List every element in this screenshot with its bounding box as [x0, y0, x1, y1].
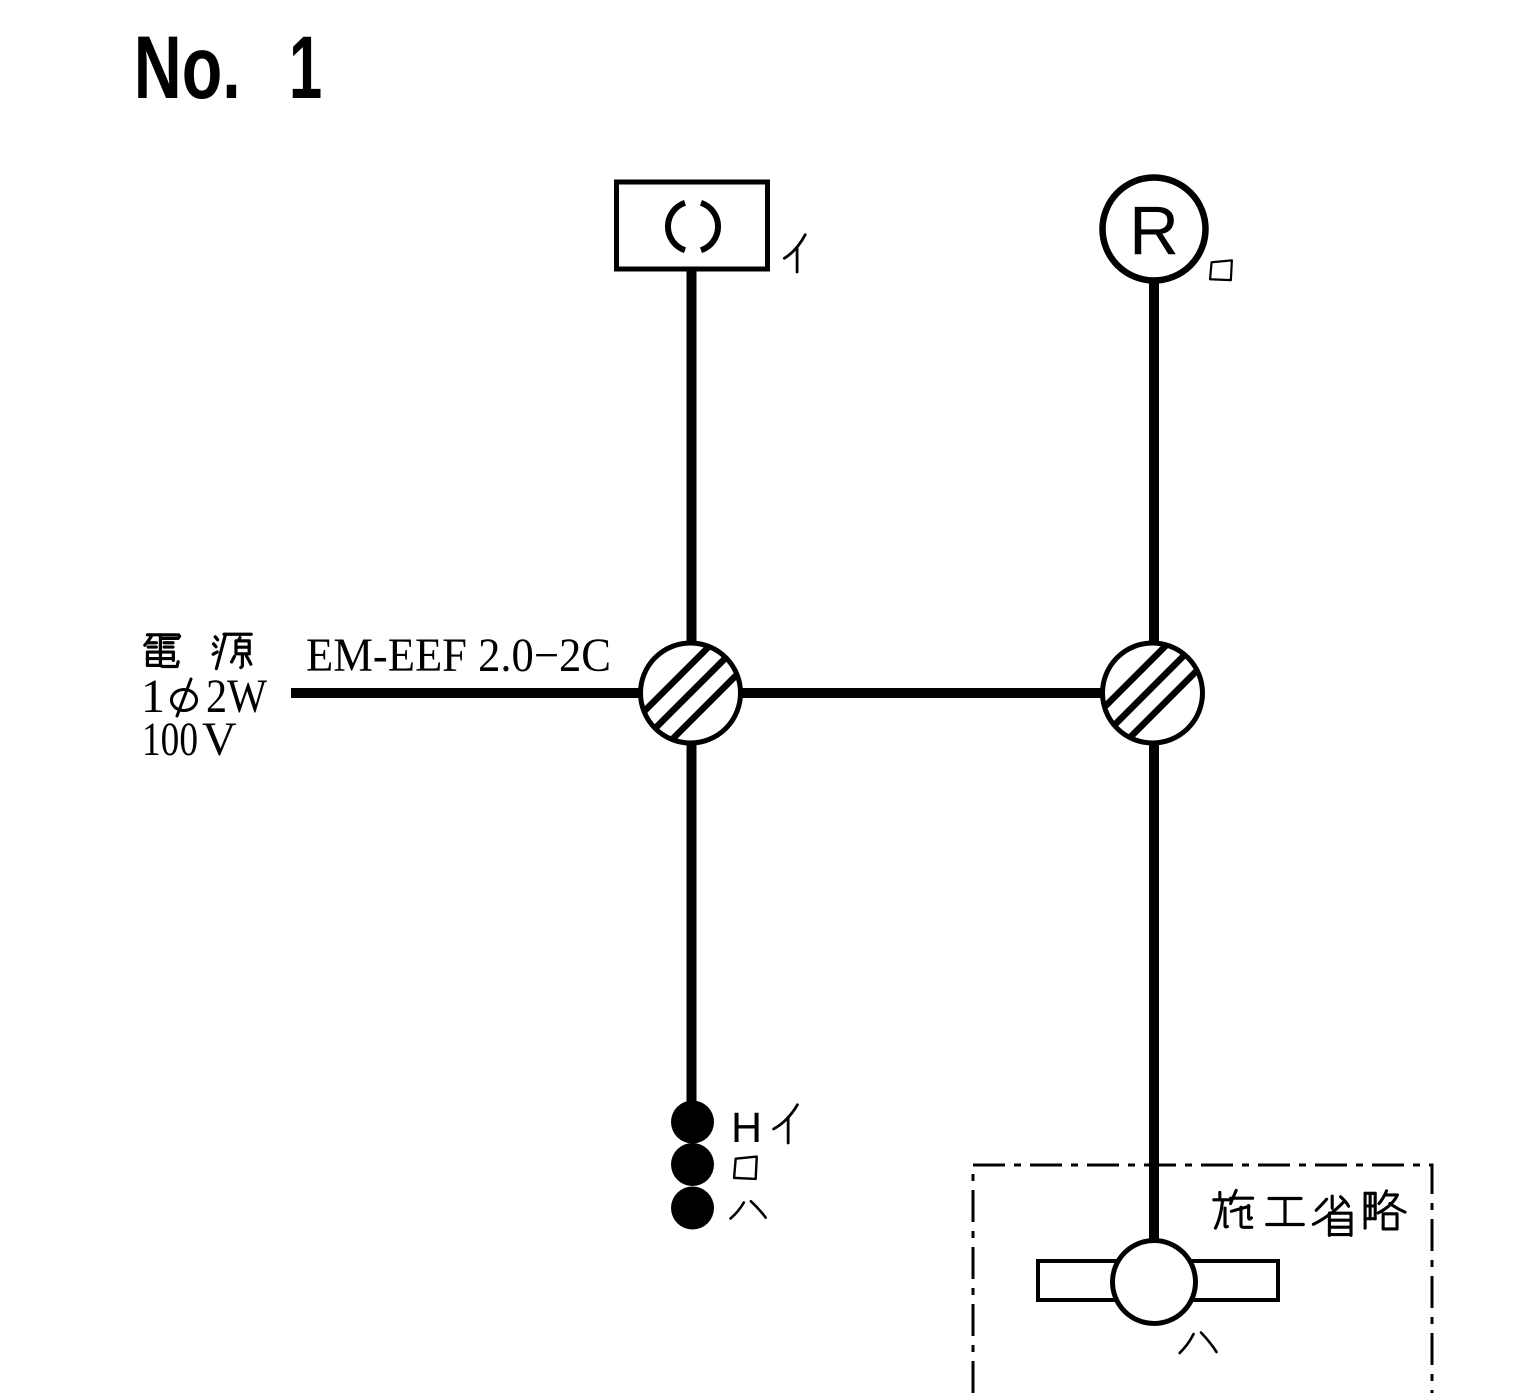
kanji SHI (construction omitted 施) — [1214, 1190, 1253, 1228]
label katakana ha (lamp receptacle) — [1180, 1333, 1217, 1354]
svg-text:100: 100 — [142, 713, 198, 766]
svg-text:R: R — [1129, 192, 1179, 269]
switch dot 3 (switch ハ) — [671, 1187, 714, 1230]
label katakana ha (switch 3) — [731, 1201, 766, 1218]
junction box (right, hatched circle) — [1069, 643, 1225, 743]
kanji KOU (工) — [1267, 1198, 1303, 1224]
title No. 1 — [134, 18, 241, 118]
label katakana ro (switch 2) — [734, 1157, 757, 1179]
svg-text:EM-EEF 2.0−2C: EM-EEF 2.0−2C — [306, 629, 611, 682]
lamp receptacle (circle with side bars) ハ — [1038, 1241, 1278, 1324]
junction box (left, hatched circle) — [613, 643, 769, 743]
label katakana i (switch 1) — [774, 1105, 798, 1143]
svg-text:V: V — [202, 713, 237, 766]
wire: ceiling light to left junction box — [687, 269, 697, 645]
kanji GEN (source) — [213, 634, 251, 668]
kanji RYAKU (略) — [1365, 1191, 1405, 1229]
svg-text:1: 1 — [289, 18, 322, 118]
phi symbol — [172, 679, 197, 716]
wire: R lamp to right junction — [1149, 282, 1159, 645]
svg-text:H: H — [731, 1104, 762, 1152]
wire: right junction down to lamp receptacle — [1149, 740, 1159, 1240]
wire: power source horizontal feed — [291, 688, 645, 698]
label katakana i (ceiling light) — [784, 235, 805, 272]
switch dot 1 (switch H イ) — [671, 1101, 714, 1144]
kanji DEN (electric) — [145, 635, 180, 667]
dash-dot boundary box (construction omitted area) — [973, 1165, 1432, 1393]
switch dot 2 (switch ロ) — [671, 1143, 714, 1186]
kanji SHOU (省) — [1313, 1196, 1351, 1235]
wire: left junction down to switches — [687, 740, 697, 1104]
label katakana ro (R lamp) — [1210, 260, 1232, 280]
lamp R ロ — [1103, 178, 1206, 281]
ceiling light (angular hook ceiling rose) box イ — [617, 182, 768, 269]
wire: between junction boxes — [740, 688, 1105, 698]
svg-text:No.: No. — [134, 18, 241, 118]
